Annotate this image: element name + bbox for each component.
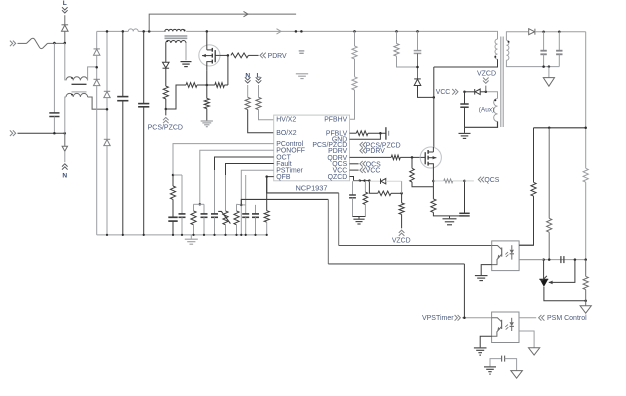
wire vcc branch <box>359 180 361 182</box>
junction comp feed <box>548 258 551 261</box>
diode D6 aux <box>163 67 170 69</box>
junction rail mark B <box>300 30 303 33</box>
svg-text:VZCD: VZCD <box>477 71 496 78</box>
resistor R branch236 <box>234 211 239 225</box>
wire tl431 ref <box>549 260 575 283</box>
wire opto2 anode to PSM <box>519 317 536 319</box>
wire vzcd node up <box>401 181 403 193</box>
wire tl431 cathode <box>543 260 545 280</box>
wire pfblv r to cap <box>368 132 386 134</box>
choke core bars <box>72 83 87 85</box>
wire N sense upper <box>247 85 249 97</box>
wire PSTimer net drop <box>327 199 329 264</box>
svg-text:QCS: QCS <box>484 177 499 184</box>
wire vcc diode to node <box>480 91 486 93</box>
diode D clamp <box>414 78 421 80</box>
ground secondary (triangle) <box>543 78 554 87</box>
wire ground rail <box>97 234 267 236</box>
wire OCT feeder <box>215 157 274 170</box>
wire top feeder line <box>149 14 296 31</box>
capacitor C1 <box>117 96 128 98</box>
wire QDRV pin to gate resistor <box>350 156 392 158</box>
wire aux winding left lead <box>165 43 167 62</box>
wire qzcd cap branch <box>353 180 360 182</box>
phase dot choke bottom <box>71 94 73 96</box>
junction rail PFC drain <box>206 30 209 33</box>
optocoupler U2 transistor <box>492 246 502 250</box>
ground opto2 LED (triangle) <box>529 348 540 355</box>
wire branch182 lower <box>181 217 183 235</box>
wire opto1 LED cathode <box>519 259 544 261</box>
wire HV rail to PFC inductor <box>138 30 166 32</box>
resistor R pfc-sense <box>204 98 209 108</box>
wire output right drop <box>585 32 587 169</box>
svg-text:VZCD: VZCD <box>392 238 411 245</box>
resistor R pcs <box>163 86 168 99</box>
wire qcs cap <box>464 181 466 213</box>
wire tl431 anode <box>544 287 586 301</box>
wire qcs node <box>453 180 465 182</box>
wire opto feed lower <box>519 196 533 245</box>
wire jog pstimer <box>237 203 242 206</box>
junction comp tl431 <box>542 258 545 261</box>
wire opto1 emitter <box>481 265 492 276</box>
capacitor C branch255 <box>252 213 259 215</box>
wire opto feed upper <box>533 128 535 183</box>
wire qzcd series to node <box>391 192 402 194</box>
junction qfb corner <box>265 175 268 178</box>
junction rail top feeder <box>148 30 151 33</box>
wire vzcd node to resistor <box>401 193 403 203</box>
wire fault lower <box>225 225 227 235</box>
wire tl431 feed lower <box>548 232 550 259</box>
svg-text:NCP1937: NCP1937 <box>295 184 327 193</box>
wire out divider mid <box>585 182 587 259</box>
wire HV rail left section <box>97 30 129 32</box>
wire diode to fuse junction <box>64 31 66 43</box>
wire Q2 source <box>432 173 434 199</box>
wire bridge leg B upper <box>106 31 108 91</box>
wire diode to resistor <box>165 68 167 86</box>
junction VZCD node <box>400 192 403 195</box>
wire aux top lead <box>486 92 498 99</box>
resistor R pfb-hv1 <box>352 46 357 59</box>
wire primary bottom lead <box>434 59 498 67</box>
wire branch255 lower <box>255 217 257 235</box>
ground symbol chassis <box>296 73 308 75</box>
wire to out ground <box>585 301 587 306</box>
junction comp right <box>584 258 587 261</box>
junction leg A AC node <box>95 66 98 69</box>
ground bottom right (triangle) <box>511 371 523 379</box>
wire GND pin <box>350 133 381 139</box>
wire choke bottom-left lead <box>65 97 66 133</box>
phase dot choke top <box>71 77 73 79</box>
junction rail clamp C <box>416 30 419 33</box>
connector QCS at IC <box>363 161 366 167</box>
transformer T1 primary winding <box>495 39 498 59</box>
junction rail bulk cap 1 <box>122 30 125 33</box>
wire ponoff R branch <box>193 204 195 211</box>
svg-text:PDRV: PDRV <box>268 53 287 60</box>
wire PCS node to sense tap <box>166 85 186 109</box>
junction PFC source node <box>206 84 209 87</box>
wire PControl feeder <box>173 144 274 175</box>
wire branch 236 upper <box>236 204 238 211</box>
wire vcc cap upper <box>464 92 466 104</box>
svg-text:PDRV: PDRV <box>366 148 385 155</box>
junction rail leg B <box>106 30 109 33</box>
ground Q2 sense <box>449 216 451 218</box>
junction rail PFB divider <box>353 30 356 33</box>
junction out cap 2 <box>558 30 561 33</box>
connector VCC at IC <box>363 167 366 173</box>
wire pulldown to source <box>412 182 433 187</box>
wire qfb lower <box>266 222 268 235</box>
wire pcontrol cap to rail <box>172 221 174 235</box>
wire QZCD pin <box>350 177 370 181</box>
wire gs resistor to source <box>207 84 215 86</box>
wire qzcd gnd bus <box>353 216 366 218</box>
diode D vcc charge <box>474 89 476 95</box>
junction pfblv node <box>379 132 382 135</box>
wire jog to cap branch <box>173 174 182 176</box>
junction pcontrol <box>172 174 175 177</box>
bulk capacitor C2 lower wire <box>143 107 145 235</box>
capacitor C bottom <box>501 356 503 362</box>
connector L sense <box>256 77 262 80</box>
junction out cap 1 <box>542 30 545 33</box>
svg-text:QZCD: QZCD <box>328 174 348 181</box>
wire L connector to diode <box>64 15 66 25</box>
wire qzcd cap lower <box>352 198 354 217</box>
phase dot aux <box>494 99 496 101</box>
wire vout tap <box>534 127 586 129</box>
junction leg B AC node <box>106 108 109 111</box>
wire clamp diode to drain <box>418 86 434 98</box>
wire vzcd resistor to connector <box>401 214 403 228</box>
junction q-gate node <box>411 156 414 159</box>
wire PFB divider mid <box>354 59 356 77</box>
wire ponoff R lower <box>193 225 195 235</box>
transformer T1 secondary winding <box>506 40 509 60</box>
wire PSTimer feeder <box>241 170 273 235</box>
junction VCC node <box>463 91 466 94</box>
capacitor C pfblv <box>385 127 387 140</box>
resistor R fault NTC <box>223 211 228 225</box>
wire branch236 lower <box>236 225 238 235</box>
bulk capacitor C1 wire <box>122 31 124 96</box>
connector QCS right <box>481 177 484 183</box>
junction anode right <box>584 300 587 303</box>
svg-text:QFB: QFB <box>276 174 291 181</box>
inductor L1 PFC boost winding <box>165 29 185 31</box>
wire branch cap 182 <box>181 175 183 214</box>
wire out cap1 upper <box>543 32 545 51</box>
capacitor C ponoff <box>201 213 208 215</box>
wire sense to ground <box>206 109 208 121</box>
wire secondary return <box>506 60 559 66</box>
wire clamp R lower <box>397 56 418 67</box>
open arrow to N connector <box>62 146 67 151</box>
junction clamp node <box>416 66 419 69</box>
wire QFB feeder <box>267 177 274 211</box>
ground rail symbol <box>190 235 192 239</box>
connector PDRV (PFC side) <box>263 53 266 59</box>
transistor U3 TL431 shunt <box>539 278 548 280</box>
diode D1 on L line <box>62 24 69 26</box>
wire choke bottom-right lead <box>88 97 107 109</box>
junction qzcd cap <box>358 179 361 182</box>
wire Fault feeder <box>226 164 274 176</box>
resistor R pcontrol <box>170 186 175 199</box>
junction secondary gnd stem <box>548 65 551 68</box>
ground bottom left <box>484 366 496 368</box>
resistor R vzcd <box>399 203 404 215</box>
arrow on HV rail <box>277 29 282 34</box>
wire resistor to PCS node <box>165 99 167 109</box>
phase dot secondary <box>508 41 510 43</box>
wire leg B lower <box>106 146 108 235</box>
junction gate node <box>227 54 230 57</box>
junction L diode <box>64 42 67 45</box>
capacitor C pcontrol <box>168 216 177 218</box>
resistor R tl431-feed <box>547 218 552 232</box>
wire QFB net <box>267 177 339 193</box>
connector VPSTimer <box>455 315 458 321</box>
wire qzcd series branch <box>369 181 377 194</box>
capacitor C2 <box>138 103 149 105</box>
wire branch 246 upper <box>245 175 247 214</box>
ground PFC sense <box>201 120 213 122</box>
resistor R opto-feed <box>531 182 536 196</box>
wire gate-source resistor path <box>227 55 229 85</box>
wire tap to source node <box>197 84 207 86</box>
wire clamp C lower <box>417 53 419 79</box>
optocoupler U2 LED <box>511 245 513 250</box>
wire ponoff C lower <box>203 217 205 235</box>
junction rail bulk cap 2 <box>142 30 145 33</box>
resistor R l-sense <box>256 97 261 109</box>
connector AC neutral input <box>10 130 13 136</box>
bulk capacitor C2 wire <box>143 31 145 103</box>
wire PFBLV pin <box>350 132 357 134</box>
optocoupler U4 LED <box>511 318 513 323</box>
wire PSTimer net across <box>328 263 464 265</box>
connector VZCD bottom <box>399 233 405 236</box>
ground opto1 emitter <box>475 275 488 277</box>
resistor R sense-tap <box>186 83 197 88</box>
wire pcontrol branch <box>172 175 174 186</box>
wire M1 gate <box>220 54 228 56</box>
wire qcs stub right <box>465 180 474 182</box>
junction qzcd res <box>363 179 366 182</box>
svg-text:VCC: VCC <box>366 168 381 175</box>
resistor R gate <box>231 53 249 58</box>
wire X2 cap bottom <box>53 117 55 134</box>
wire out cap2 upper <box>558 32 560 51</box>
junction N / X2 cap <box>53 132 56 135</box>
svg-text:HV/X2: HV/X2 <box>276 117 296 124</box>
resistor R out-lower <box>583 276 588 289</box>
inductor L1 aux winding <box>166 40 186 43</box>
optocoupler U2 body <box>492 241 519 271</box>
svg-text:VPSTimer: VPSTimer <box>422 315 454 322</box>
arrow on top feeder line <box>244 11 249 16</box>
wire VCC stub <box>350 169 359 171</box>
wire comp line <box>519 259 586 261</box>
wire L sense upper <box>258 85 260 97</box>
capacitor C qzcd <box>349 194 356 196</box>
wire tl431 feed upper <box>548 128 550 219</box>
svg-text:BO/X2: BO/X2 <box>276 130 296 137</box>
capacitor C out1 <box>540 50 546 52</box>
capacitor C vcc <box>460 103 468 105</box>
wire PFB divider upper <box>354 31 356 46</box>
diode bridge D3 <box>94 78 100 80</box>
wire out lower links <box>585 260 587 277</box>
wire N sense to BO/X2 <box>248 110 274 133</box>
junction rail mark A <box>295 30 298 33</box>
wire out cap2 lower <box>558 54 560 66</box>
connector PSM Control <box>542 315 545 321</box>
wire secondary top lead <box>506 32 528 41</box>
connector N sense <box>245 77 251 80</box>
wire ponoff jogs <box>194 203 200 205</box>
wire choke top-left lead <box>64 43 66 80</box>
wire primary top lead <box>496 31 499 39</box>
transistor M1 PFC MOSFET <box>199 45 220 66</box>
wire q-sense to gnd <box>433 212 449 216</box>
resistor R pfb-hv2 <box>352 77 357 90</box>
svg-text:PFBHV: PFBHV <box>324 117 347 124</box>
transistor Q2 flyback MOSFET <box>420 147 441 168</box>
capacitor C clamp <box>414 50 422 52</box>
resistor R ponoff <box>191 211 196 225</box>
wire branch 255 upper <box>255 205 257 214</box>
junction vpstimer <box>463 317 466 320</box>
wire bridge leg A upper <box>96 31 98 49</box>
junction ponoff <box>199 203 202 206</box>
common-mode choke L2 bottom winding <box>66 93 88 97</box>
connector VZCD top <box>483 78 489 81</box>
diode bridge D5 <box>104 138 110 140</box>
wire secondary output rail <box>535 31 586 33</box>
svg-text:N: N <box>62 172 67 179</box>
optocoupler U4 body <box>492 312 519 343</box>
capacitor C out2 <box>556 50 562 52</box>
resistor R qzcd-series <box>378 191 391 196</box>
resistor R n-sense <box>245 97 250 109</box>
wire choke top-right lead <box>88 67 97 81</box>
svg-text:VCC: VCC <box>436 89 451 96</box>
wire aux bottom lead <box>465 122 498 128</box>
wire vpstimer <box>462 317 492 319</box>
resistor R clamp <box>394 44 399 57</box>
wire drain vertical <box>433 67 435 147</box>
junction QCS node <box>463 180 466 183</box>
junction PCS node <box>165 108 168 111</box>
connector N (net N) <box>62 167 68 170</box>
ground aux return <box>464 127 466 133</box>
wire qcs cap lower <box>450 215 465 217</box>
resistor R qfb <box>264 211 269 223</box>
capacitor C oct <box>211 213 218 215</box>
phase dot primary <box>494 56 496 58</box>
wire PFB divider to pin PFBHV <box>350 90 355 119</box>
inductor L3 filter choke <box>128 29 138 31</box>
junction aux VZCD <box>485 91 488 94</box>
svg-text:PSM Control: PSM Control <box>547 315 587 322</box>
junctions on ground rail <box>106 234 108 236</box>
junction vout tap right <box>584 127 587 130</box>
junction drain clamp <box>433 96 436 99</box>
capacitor C branch182 <box>179 213 186 215</box>
op-amp U1 NCP1937 body <box>274 115 350 181</box>
wire PONOFF feeder <box>200 150 274 204</box>
wire L sense to HV/X2 <box>259 110 274 120</box>
junction tl431 feed <box>548 127 551 130</box>
wire QFB net to opto <box>339 245 492 247</box>
resistor R out-upper <box>583 168 588 182</box>
junction secondary return <box>542 65 545 68</box>
wire ponoff C branch <box>203 204 205 214</box>
wire secondary gnd stem <box>548 67 550 78</box>
wire M1 source <box>206 70 208 98</box>
resistor R q-sense <box>431 199 436 213</box>
wire X2 cap top <box>53 43 55 113</box>
wire N stub down <box>64 133 66 146</box>
svg-text:PCS/PZCD: PCS/PZCD <box>148 124 183 131</box>
junction on fuse wire <box>53 42 56 45</box>
junction qzcd corner <box>368 179 371 182</box>
wire bottom cap right <box>505 359 517 371</box>
wire out cap1 lower <box>543 54 545 66</box>
junction N branch <box>64 132 67 135</box>
wire oct lower <box>214 217 216 235</box>
wire opto1 LED anode <box>519 244 533 246</box>
diode bridge D4 <box>104 90 110 92</box>
wire PSTimer net <box>241 199 328 205</box>
ground opto2 emitter <box>474 347 487 349</box>
resistor R gate-source <box>215 83 225 88</box>
wire leg B mid <box>106 98 108 140</box>
capacitor C branch246 <box>242 213 249 215</box>
junction Q2 source node <box>432 180 435 183</box>
ground output divider (triangle) <box>580 306 591 313</box>
wire branch246 lower <box>245 217 247 235</box>
connector PCS/PZCD (PFC side) <box>165 109 167 115</box>
resistor R q-gate-pulldown <box>411 157 413 168</box>
capacitor CX2 <box>49 112 59 114</box>
wire HV rail middle <box>186 30 497 32</box>
resistor R pfblv <box>356 131 368 136</box>
resistor R qzcd-gnd <box>364 181 366 193</box>
junction pstimer <box>240 204 243 207</box>
transformer T1 core <box>500 37 502 128</box>
wire clamp C upper <box>417 31 419 50</box>
wire N input <box>18 132 65 134</box>
diode D qzcd clamp <box>369 180 380 182</box>
connector PCS/PZCD at IC <box>363 142 366 148</box>
wire vcc node <box>465 91 475 93</box>
capacitor C comp <box>560 256 562 263</box>
fuse F1 <box>18 42 27 44</box>
optocoupler U4 transistor <box>492 318 502 322</box>
diode bridge D2 <box>94 48 100 50</box>
wire leg A lower <box>96 86 98 235</box>
wire QFB net drop <box>338 193 340 246</box>
